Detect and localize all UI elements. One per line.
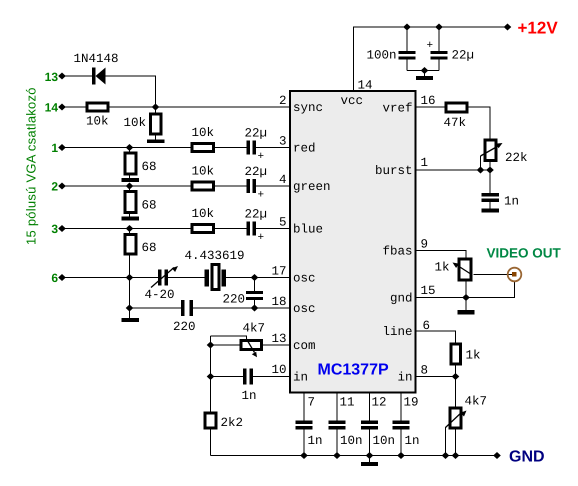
potentiometer P4 wiper line xyxy=(446,412,463,428)
node VGA pin13 xyxy=(58,73,66,80)
pin name com xyxy=(293,339,316,353)
svg-text:1: 1 xyxy=(421,156,429,170)
crystal X1 body xyxy=(212,265,219,290)
pin name gnd xyxy=(390,292,413,306)
wire gnd15 stub xyxy=(465,298,467,311)
net label +12V xyxy=(518,19,559,38)
svg-text:47k: 47k xyxy=(444,116,467,130)
svg-text:15 pólusú VGA csatlakozó: 15 pólusú VGA csatlakozó xyxy=(24,87,39,245)
svg-text:10k: 10k xyxy=(124,116,147,130)
value label 1N4148 xyxy=(74,52,119,66)
wire node8 to 4k7 xyxy=(455,377,457,407)
value label R1 10k xyxy=(86,115,109,129)
wire gnd15 row xyxy=(416,297,466,299)
node rail pin11 xyxy=(333,452,341,459)
value label C7 1n xyxy=(242,389,257,403)
crystal X1 right plate xyxy=(222,270,227,287)
pin name green xyxy=(293,180,331,194)
value label R2 10k xyxy=(124,116,147,130)
diode D1 triangle xyxy=(96,68,106,85)
pin name in right xyxy=(397,371,412,385)
svg-text:5: 5 xyxy=(279,216,287,230)
wire wiper to video out xyxy=(474,274,514,276)
capacitor C1 22u red plates xyxy=(247,141,251,155)
wire crystal to pin17 xyxy=(226,277,290,279)
svg-text:1n: 1n xyxy=(405,434,420,448)
capacitor C14 1n pin19 plates xyxy=(393,421,410,425)
VGA pin label 2 xyxy=(51,180,58,194)
pin name osc 18 xyxy=(293,302,316,316)
wire fbas to 1k pot xyxy=(416,251,466,258)
svg-text:220: 220 xyxy=(173,320,196,334)
svg-text:fbas: fbas xyxy=(382,245,412,259)
wire bottom ground stub xyxy=(369,456,371,463)
potentiometer P4 4k7 bottom body xyxy=(450,408,461,428)
pin number 8 xyxy=(421,364,429,378)
svg-text:18: 18 xyxy=(271,295,286,309)
pin number 12 xyxy=(372,396,387,410)
wire burst to 1n cap xyxy=(489,170,491,193)
svg-text:osc: osc xyxy=(293,272,316,286)
svg-text:4k7: 4k7 xyxy=(465,395,488,409)
svg-text:19: 19 xyxy=(404,396,419,410)
connector J1 VIDEO OUT xyxy=(508,268,522,282)
value label R3 10k xyxy=(192,126,215,140)
value label C5 220 xyxy=(173,320,196,334)
node VGA pin6 xyxy=(58,274,66,281)
wire pin12 cap column xyxy=(369,393,371,456)
svg-text:gnd: gnd xyxy=(390,292,413,306)
svg-text:22µ: 22µ xyxy=(245,127,268,141)
wire 22k bottom lead xyxy=(489,162,491,170)
svg-text:8: 8 xyxy=(421,364,429,378)
svg-text:com: com xyxy=(293,339,316,353)
svg-text:10: 10 xyxy=(271,363,286,377)
wire com wiper loop xyxy=(211,336,247,339)
pin name sync xyxy=(293,101,323,115)
node row6 left xyxy=(126,274,134,281)
resistor R6 68 red xyxy=(125,153,136,174)
node gnd15 junction xyxy=(462,294,470,301)
pin name blue xyxy=(293,223,323,237)
value label C3 22u xyxy=(245,208,268,245)
node burst bottom xyxy=(486,167,494,174)
ground below R2 xyxy=(147,140,165,144)
capacitor C6 220 vertical plates xyxy=(246,291,263,294)
wire blue row xyxy=(62,228,191,230)
svg-text:sync: sync xyxy=(293,101,323,115)
diode D1 1N4148 cathode bar xyxy=(92,68,96,85)
wire blue row mid xyxy=(215,228,247,230)
node VGA pin2 xyxy=(58,183,66,190)
capacitor C13 10n pin12 plates xyxy=(361,421,378,425)
pin name red xyxy=(293,142,316,156)
wire 4k7 bottom xyxy=(455,430,457,456)
wire 1k to node8 xyxy=(455,366,457,377)
pin name osc 17 xyxy=(293,272,316,286)
value label C13 10n xyxy=(373,434,396,448)
node sync junction xyxy=(152,104,160,111)
value label R6 68 xyxy=(142,160,157,174)
svg-text:68: 68 xyxy=(142,199,157,213)
pin name line xyxy=(382,325,412,339)
VGA pin label 13 xyxy=(45,70,59,84)
resistor R3 10k red row xyxy=(192,144,214,152)
svg-text:10k: 10k xyxy=(86,115,109,129)
wire com pot left lead xyxy=(211,344,240,346)
wire green row mid xyxy=(215,185,247,187)
wire top ground stub xyxy=(424,71,426,77)
svg-text:4: 4 xyxy=(279,173,287,187)
wire blue row to pin5 xyxy=(256,228,290,230)
value label C11 1n xyxy=(308,434,323,448)
value label C14 1n xyxy=(405,434,420,448)
svg-text:burst: burst xyxy=(375,164,413,178)
VGA pin label 14 xyxy=(45,101,59,115)
pin number 2 xyxy=(279,94,287,108)
pin number 9 xyxy=(421,238,429,252)
wire GND rail xyxy=(211,455,498,457)
wire 100n column xyxy=(406,27,408,71)
svg-text:line: line xyxy=(382,325,412,339)
svg-text:4-20: 4-20 xyxy=(145,288,175,302)
node rail 4k7 wiper xyxy=(442,452,450,459)
wire pin11 cap column xyxy=(336,393,338,456)
pin number 16 xyxy=(421,94,436,108)
node rail pin19 xyxy=(397,452,405,459)
trimmer C4 arrowhead xyxy=(172,266,178,272)
node red 68 tap xyxy=(126,144,134,151)
pin number 3 xyxy=(279,135,287,149)
svg-text:22µ: 22µ xyxy=(452,49,475,63)
wire 22k wiper lead xyxy=(480,156,482,170)
wire R10k vertical stubs xyxy=(155,107,157,140)
pin number 4 xyxy=(279,173,287,187)
svg-text:13: 13 xyxy=(45,70,59,84)
svg-text:11: 11 xyxy=(340,396,355,410)
pin number 5 xyxy=(279,216,287,230)
wire 22u column xyxy=(438,27,440,71)
node rail 100n xyxy=(403,24,411,31)
wire 220 column bottom xyxy=(254,300,256,308)
wire 1n burst ground stub xyxy=(489,202,491,209)
capacitor C5 220 row18 plates xyxy=(181,300,185,316)
ground below R6 xyxy=(122,178,140,182)
wire 4k7 wiper drop xyxy=(445,427,447,456)
svg-text:68: 68 xyxy=(142,160,157,174)
value label C10 1n xyxy=(504,195,519,209)
wire VGA14 to R 10k xyxy=(62,106,86,108)
capacitor C12 10n pin11 plates xyxy=(329,421,346,425)
wire green row xyxy=(62,185,191,187)
value label C12 10n xyxy=(340,434,363,448)
svg-text:+: + xyxy=(427,40,434,52)
svg-text:22µ: 22µ xyxy=(245,208,268,222)
svg-text:vcc: vcc xyxy=(341,94,364,108)
value label P3 1k xyxy=(435,261,450,275)
node VGA pin1 xyxy=(58,144,66,151)
wire VGA13 to diode xyxy=(62,75,92,77)
IC part number MC1377P xyxy=(318,362,389,379)
svg-text:osc: osc xyxy=(293,302,316,316)
ground bottom rail xyxy=(361,462,378,466)
node osc18 junction xyxy=(251,305,259,312)
node green 68 tap xyxy=(126,183,134,190)
svg-text:12: 12 xyxy=(372,396,387,410)
potentiometer P3 wiper line xyxy=(456,265,472,275)
wire 2k2 to rail xyxy=(210,430,212,456)
resistor R1 10k horizontal xyxy=(87,103,108,111)
pin number 13 xyxy=(271,332,286,346)
wire VGA6 row to trimmer xyxy=(62,277,158,279)
potentiometer P3 arrowhead xyxy=(453,263,459,269)
svg-text:100n: 100n xyxy=(367,49,397,63)
svg-text:2: 2 xyxy=(279,94,287,108)
svg-text:14: 14 xyxy=(358,79,373,93)
wire in8 row xyxy=(416,376,456,378)
wire red row mid xyxy=(215,147,247,149)
svg-text:16: 16 xyxy=(421,94,436,108)
wire 1k pot bottom xyxy=(465,282,467,298)
ground 1n burst xyxy=(482,209,500,213)
svg-text:1: 1 xyxy=(51,141,58,155)
pin number 1 xyxy=(421,156,429,170)
value label R4 10k xyxy=(192,165,215,179)
svg-text:3: 3 xyxy=(51,222,58,236)
node GND terminal xyxy=(493,452,501,459)
wire R68-1 stubs xyxy=(129,148,131,179)
svg-text:in: in xyxy=(293,371,308,385)
net label GND xyxy=(509,449,545,466)
value label R8 68 xyxy=(142,241,157,255)
svg-text:+12V: +12V xyxy=(518,19,559,38)
svg-text:in: in xyxy=(397,371,412,385)
resistor R10 47k xyxy=(446,103,467,112)
wire red row to pin3 xyxy=(256,147,290,149)
potentiometer P4 arrowhead xyxy=(460,411,466,417)
svg-text:6: 6 xyxy=(51,271,58,285)
node VGA pin3 xyxy=(58,225,66,232)
pin number 18 xyxy=(271,295,286,309)
potentiometer P2 arrowhead xyxy=(496,143,503,148)
node rail 4k7 bottom xyxy=(452,452,460,459)
capacitor C11 1n pin7 plates xyxy=(296,421,313,425)
svg-text:14: 14 xyxy=(45,101,59,115)
svg-text:17: 17 xyxy=(271,265,286,279)
wire video out return xyxy=(466,282,515,298)
pin number 6 xyxy=(423,319,431,333)
VGA connector caption xyxy=(24,87,39,245)
svg-text:VIDEO OUT: VIDEO OUT xyxy=(487,246,562,261)
pin name vcc xyxy=(341,94,364,108)
svg-text:6: 6 xyxy=(423,319,431,333)
node supply ground xyxy=(421,67,429,74)
value label R10 47k xyxy=(444,116,467,130)
pin number 17 xyxy=(271,265,286,279)
capacitor C2 22u green plates xyxy=(247,179,251,193)
node osc17 junction xyxy=(251,274,259,281)
capacitor C8 100n plates xyxy=(399,51,416,54)
ground left column xyxy=(122,318,140,322)
wire R68-2 stubs xyxy=(129,186,131,217)
svg-text:red: red xyxy=(293,142,316,156)
svg-text:2k2: 2k2 xyxy=(221,416,244,430)
wire diode to sync junction xyxy=(106,76,156,107)
pin name in left xyxy=(293,371,308,385)
ground below R7 xyxy=(122,217,140,221)
wire row18 left xyxy=(130,307,182,309)
svg-text:10n: 10n xyxy=(373,434,396,448)
value label C8 100n xyxy=(367,49,397,63)
node rail pin7 xyxy=(300,452,308,459)
ground supply caps xyxy=(416,76,433,80)
value label C6 220 xyxy=(223,293,246,307)
wire pin7 cap column xyxy=(303,393,305,456)
potentiometer P2 22k body xyxy=(485,140,496,161)
svg-text:1N4148: 1N4148 xyxy=(74,52,119,66)
wire 10k to IC pin2 sync xyxy=(110,106,290,108)
svg-text:68: 68 xyxy=(142,241,157,255)
node in10 junction xyxy=(207,373,215,380)
pin number 7 xyxy=(308,396,316,410)
resistor R7 68 green xyxy=(125,192,136,213)
crystal X1 left plate xyxy=(205,270,210,287)
svg-text:7: 7 xyxy=(308,396,316,410)
value label R5 10k xyxy=(192,207,215,221)
potentiometer P2 wiper line xyxy=(481,146,500,157)
svg-text:10n: 10n xyxy=(340,434,363,448)
VGA pin label 3 xyxy=(51,222,58,236)
svg-text:4k7: 4k7 xyxy=(243,322,266,336)
node in8 junction xyxy=(452,373,460,380)
pin number 14 xyxy=(358,79,373,93)
svg-text:22k: 22k xyxy=(505,151,528,165)
potentiometer P1 4k7 com body xyxy=(241,341,262,350)
capacitor C3 22u blue plates xyxy=(247,222,251,236)
svg-text:1n: 1n xyxy=(242,389,257,403)
svg-text:10k: 10k xyxy=(192,165,215,179)
svg-text:22µ: 22µ xyxy=(245,165,268,179)
svg-text:+: + xyxy=(258,151,265,163)
potentiometer P1 arrowhead xyxy=(252,352,257,358)
wire line row to 1k xyxy=(416,331,456,343)
node burst wiper xyxy=(477,167,485,174)
net label VIDEO OUT xyxy=(487,246,562,261)
value label R11 1k xyxy=(466,349,481,363)
wire in10 left xyxy=(211,376,244,378)
svg-text:vref: vref xyxy=(382,102,412,116)
wire pin19 cap column xyxy=(400,393,402,456)
svg-text:MC1377P: MC1377P xyxy=(318,362,389,379)
value label C9 22u xyxy=(427,40,475,63)
value label C1 22u xyxy=(245,127,268,164)
wire green row to pin4 xyxy=(256,185,290,187)
VGA pin label 6 xyxy=(51,271,58,285)
capacitor C10 1n burst plates xyxy=(482,193,500,197)
ground gnd15 xyxy=(458,310,475,315)
pin name fbas xyxy=(382,245,412,259)
svg-text:3: 3 xyxy=(279,135,287,149)
node rail 22u xyxy=(435,24,443,31)
VGA pin label 1 xyxy=(51,141,58,155)
svg-text:4.433619: 4.433619 xyxy=(185,249,245,263)
wire trimmer to crystal xyxy=(168,277,205,279)
resistor R8 68 blue xyxy=(125,235,136,255)
node blue 68 tap xyxy=(126,225,134,232)
svg-text:+: + xyxy=(258,232,265,244)
svg-text:1n: 1n xyxy=(504,195,519,209)
svg-text:15: 15 xyxy=(421,284,436,298)
resistor R5 10k blue row xyxy=(192,225,214,233)
value label X1 4.433619 xyxy=(185,249,245,263)
value label P4 4k7 xyxy=(465,395,488,409)
node rail pin12 xyxy=(366,452,374,459)
node +12V terminal xyxy=(504,24,512,31)
svg-text:GND: GND xyxy=(509,449,545,466)
value label C4 4-20 xyxy=(145,288,175,302)
wire R68-3 stub xyxy=(129,229,131,234)
wire node A red row xyxy=(62,147,191,149)
svg-text:13: 13 xyxy=(271,332,286,346)
node row18 left xyxy=(126,305,134,312)
wire row18 to pin18 xyxy=(193,307,290,309)
pin number 15 xyxy=(421,284,436,298)
wire 1n to pin10 xyxy=(253,376,290,378)
pin number 10 xyxy=(271,363,286,377)
wire 220 column top xyxy=(254,278,256,292)
svg-text:1k: 1k xyxy=(466,349,481,363)
capacitor C4 trimmer 4-20 plates xyxy=(158,270,162,286)
resistor R9 2k2 xyxy=(205,413,216,428)
value label C2 22u xyxy=(245,165,268,202)
wire pot to pin13 xyxy=(263,344,290,346)
wire vcc riser xyxy=(354,27,508,91)
svg-text:10k: 10k xyxy=(192,207,215,221)
pin name vref xyxy=(382,102,412,116)
pin name burst xyxy=(375,164,413,178)
svg-text:10k: 10k xyxy=(192,126,215,140)
potentiometer P3 1k fbas body xyxy=(459,259,471,280)
svg-text:green: green xyxy=(293,180,331,194)
wire cap bottoms join xyxy=(407,70,439,72)
pin number 11 xyxy=(340,396,355,410)
value label R9 2k2 xyxy=(221,416,244,430)
pin number 19 xyxy=(404,396,419,410)
resistor R4 10k green row xyxy=(192,182,214,190)
svg-text:blue: blue xyxy=(293,223,323,237)
trimmer C4 arrow line xyxy=(151,268,174,288)
wire pin16 to 47k xyxy=(416,106,445,108)
IC U1 MC1377P body xyxy=(290,91,416,393)
wire burst row xyxy=(416,169,490,171)
node com junction xyxy=(207,342,215,349)
svg-text:+: + xyxy=(258,190,265,202)
node VGA pin14 xyxy=(58,104,66,111)
value label P2 22k xyxy=(505,151,528,165)
value label P1 4k7 xyxy=(243,322,266,336)
resistor R11 1k line xyxy=(451,344,461,364)
svg-text:1k: 1k xyxy=(435,261,450,275)
capacitor C7 1n com plates xyxy=(243,369,247,385)
svg-text:2: 2 xyxy=(51,180,58,194)
capacitor C9 22u supply plates xyxy=(431,51,448,54)
wire com column vertical xyxy=(210,336,212,412)
wire ground column left xyxy=(129,256,131,319)
resistor R2 10k vertical xyxy=(151,114,162,134)
svg-text:1n: 1n xyxy=(308,434,323,448)
potentiometer P1 wiper line xyxy=(247,339,255,353)
svg-text:9: 9 xyxy=(421,238,429,252)
